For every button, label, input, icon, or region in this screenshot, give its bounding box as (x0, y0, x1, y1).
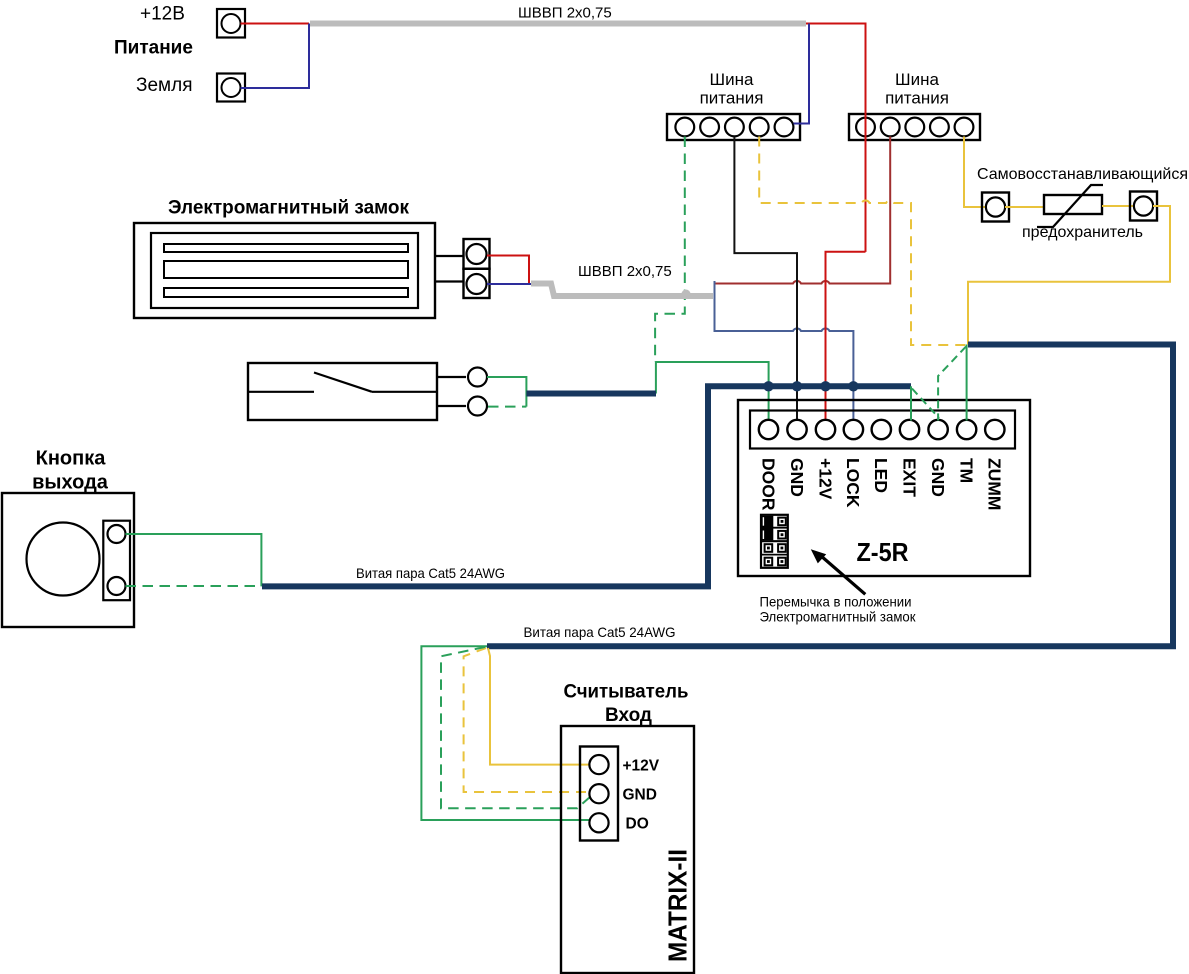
wire green node down to door-switch cable end (655, 362, 657, 394)
svg-text:Считыватель: Считыватель (564, 682, 689, 703)
wire green dashed exit cable to GND terminal (912, 389, 939, 419)
jumper block with cap (761, 515, 788, 568)
electromagnetic lock body outer (134, 223, 435, 318)
wire yellow fuse body to right box (1102, 205, 1134, 207)
wire red cable end to power bus 2 (806, 24, 866, 252)
exit button circle (27, 523, 100, 596)
exit button terminal block (103, 521, 130, 601)
lock coil bar 2 (164, 261, 408, 278)
svg-text:Шина: Шина (710, 70, 754, 89)
svg-text:выхода: выхода (32, 472, 109, 494)
cable crossing bump on gray (682, 290, 691, 299)
svg-text:+12В: +12В (140, 4, 185, 25)
power bus terminal strip 1 (667, 114, 800, 140)
wire blue cable end to power bus 1 (794, 24, 810, 124)
svg-text:LOCK: LOCK (843, 458, 863, 508)
wire red +12V to cable start (241, 23, 310, 25)
lock terminal block (464, 239, 490, 298)
svg-text:ШВВП 2х0,75: ШВВП 2х0,75 (578, 263, 672, 280)
wire yellow dashed reader junction to GND pin (464, 648, 590, 792)
wire red bus2 pin1 to +12V terminal (826, 252, 866, 421)
svg-text:питания: питания (885, 89, 949, 108)
wire green dashed reader junction to GND pin (441, 647, 591, 808)
wire blue ground to cable start (241, 24, 310, 89)
wire green exit cable to EXIT terminal (910, 386, 912, 420)
wire green dashed door switch bottom (488, 406, 526, 408)
door switch terminal stubs (437, 377, 466, 406)
cable ShVVP 2x0.75 top (gray) (310, 21, 806, 27)
wire green dashed reader cable to GND terminal (938, 347, 966, 421)
wire green solid reader junction to DO pin (421, 646, 589, 820)
svg-text:Перемычка в положении: Перемычка в положении (760, 594, 912, 610)
reader terminal circles (589, 755, 608, 832)
wire slate blue lock minus to LOCK terminal (with crossing bumps) (715, 281, 854, 421)
wire black bus1 pin3 to GND terminal (734, 137, 797, 421)
exit button box (2, 493, 134, 627)
lock coil bar 1 (164, 244, 408, 252)
arrow to jumper (811, 549, 866, 594)
svg-text:Электромагнитный замок: Электромагнитный замок (760, 609, 917, 625)
cable cat5 exit button (navy) (262, 386, 911, 586)
svg-text:Шина: Шина (895, 70, 939, 89)
svg-text:GND: GND (787, 458, 807, 497)
wire green dashed bus1 pin1 down (drawn under gray cable) (655, 137, 685, 363)
svg-text:питания: питания (700, 89, 764, 108)
wire green exit button top (126, 534, 262, 586)
Z-5R terminal strip (750, 411, 1015, 449)
cable ShVVP 2x0.75 lock (gray) (531, 284, 713, 297)
Z-5R terminal circles (759, 420, 1005, 439)
lock terminal stubs (435, 256, 463, 282)
svg-text:Самовосстанавливающийся: Самовосстанавливающийся (977, 166, 1188, 183)
svg-text:LED: LED (871, 458, 891, 493)
cable cat5 door switch (navy) (526, 391, 656, 397)
wire yellow fuse box to fuse body (1005, 206, 1044, 208)
reader terminal block (580, 747, 618, 841)
wire green reader cable to TM terminal (966, 345, 968, 421)
fuse left terminal box (982, 193, 1009, 222)
svg-text:Z-5R: Z-5R (857, 537, 909, 567)
electromagnetic lock inner frame (151, 233, 418, 308)
svg-text:Земля: Земля (136, 75, 192, 96)
door switch box (248, 363, 437, 420)
terminal Earth box (217, 74, 245, 102)
svg-text:Питание: Питание (114, 38, 193, 59)
wire yellow bus2 pin5 to fuse (964, 137, 986, 208)
fuse right terminal box (1130, 192, 1157, 221)
lock coil bar 3 (164, 288, 408, 297)
svg-text:MATRIX-II: MATRIX-II (663, 849, 693, 962)
svg-text:EXIT: EXIT (899, 458, 919, 497)
svg-text:Витая пара Cat5 24AWG: Витая пара Cat5 24AWG (356, 565, 505, 581)
fuse body (self-resetting fuse) (1037, 185, 1103, 227)
power bus terminal strip 2 (849, 114, 980, 140)
svg-text:+12V: +12V (815, 458, 835, 500)
svg-text:Электромагнитный замок: Электромагнитный замок (168, 198, 409, 219)
wire dark red lock plus to bus2 pin2 (with crossing bumps) (715, 137, 891, 284)
wire green dashed exit button bottom (126, 585, 262, 587)
wire yellow dashed bus1 pin4 to reader junction (with crossing bumps) (759, 137, 966, 346)
wire blue lock terminal to cable (487, 283, 531, 285)
wire green door switch top (487, 377, 526, 407)
svg-text:ШВВП 2х0,75: ШВВП 2х0,75 (518, 5, 612, 22)
svg-text:+12V: +12V (623, 758, 660, 775)
svg-text:GND: GND (623, 787, 657, 804)
controller Z-5R box (738, 400, 1030, 576)
reader MATRIX-II box (561, 726, 694, 973)
svg-text:Вход: Вход (605, 705, 652, 726)
terminal +12V box (217, 9, 245, 38)
wire yellow fuse return loop to reader junction (968, 206, 1170, 345)
svg-text:TM: TM (956, 458, 976, 483)
wire red lock terminal to cable (487, 256, 529, 284)
svg-text:DOOR: DOOR (758, 458, 778, 511)
wire yellow solid reader junction to +12V pin (488, 648, 590, 765)
wire red bus2 pin1 continuation over strip (865, 114, 867, 252)
cable cat5 reader (navy) (487, 345, 1173, 647)
svg-text:Кнопка: Кнопка (36, 448, 107, 470)
svg-text:GND: GND (928, 458, 948, 497)
door switch contact symbol (248, 373, 437, 392)
door switch terminal circles (468, 368, 487, 387)
svg-text:DO: DO (626, 816, 649, 833)
svg-text:Витая пара Cat5 24AWG: Витая пара Cat5 24AWG (524, 624, 676, 640)
svg-text:ZUMM: ZUMM (985, 458, 1005, 510)
junction dots on exit cable (763, 381, 858, 391)
wire green node to DOOR terminal (655, 362, 769, 421)
